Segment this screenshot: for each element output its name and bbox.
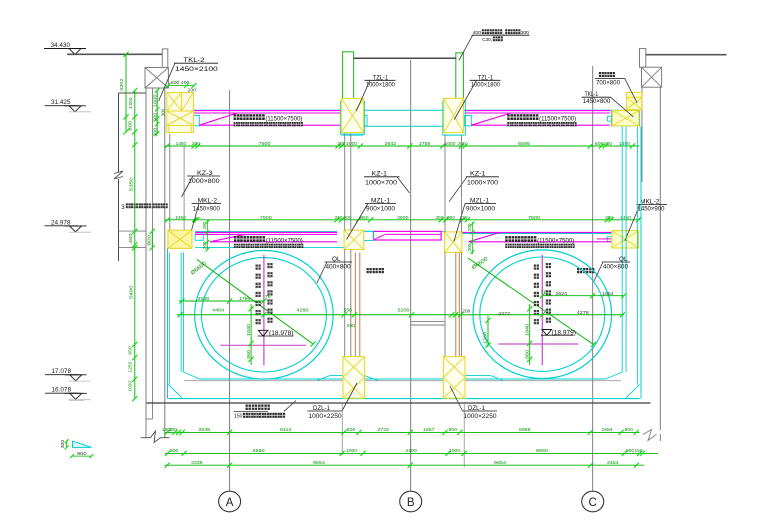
svg-text:B: B: [407, 497, 415, 509]
svg-text:700×800: 700×800: [596, 81, 621, 87]
dimension row bottom 3: [165, 464, 644, 466]
svg-text:4280: 4280: [297, 307, 309, 313]
green chain x134 full height: [134, 91, 136, 399]
svg-text:6966: 6966: [519, 427, 531, 433]
grid bubble A: [219, 491, 241, 512]
extension line x464: [463, 403, 465, 467]
grid line A: [229, 90, 231, 491]
top-right X box column: [642, 67, 662, 87]
green chain x126 3302: [125, 54, 127, 132]
dimension row level1: [165, 145, 640, 147]
svg-text:4278: 4278: [577, 310, 589, 316]
svg-text:8550: 8550: [536, 448, 548, 454]
svg-text:200: 200: [605, 215, 613, 221]
svg-text:1840: 1840: [524, 324, 530, 336]
dim line 2624 1654 right tunnel: [542, 295, 624, 297]
svg-text:5400: 5400: [129, 285, 134, 299]
column TZL-1 left: [340, 101, 364, 134]
left wall pair mid levels: [169, 134, 171, 231]
svg-text:600: 600: [171, 80, 180, 85]
svg-text:200: 200: [467, 223, 472, 231]
cyan floor level2 segments: [195, 230, 337, 232]
svg-text:24.978: 24.978: [51, 219, 71, 226]
dimension row bottom 2: [165, 452, 658, 454]
cyan inner wall right: [621, 127, 623, 373]
svg-text:4400: 4400: [405, 448, 417, 454]
svg-text:1000: 1000: [128, 380, 133, 391]
pit haunch right inner: [606, 372, 623, 379]
cyan notch left of B beam: [364, 231, 374, 240]
cyan notch left beam end: [193, 116, 200, 126]
tunnel centerline right magenta: [541, 255, 543, 365]
svg-text:200: 200: [202, 221, 207, 229]
svg-text:(11500×7500): (11500×7500): [266, 237, 303, 244]
svg-text:550: 550: [344, 307, 353, 313]
cyan floor line level1 top: [194, 109, 620, 111]
svg-text:9654: 9654: [313, 460, 325, 466]
green chain x157 top: [156, 91, 158, 134]
svg-text:650: 650: [361, 215, 369, 221]
svg-text:4372: 4372: [498, 311, 510, 317]
svg-text:200: 200: [458, 141, 466, 147]
svg-text:300: 300: [160, 108, 165, 116]
dim line 2538 1756 left tunnel: [179, 300, 264, 302]
svg-text:650: 650: [128, 346, 133, 355]
svg-text:1000: 1000: [445, 141, 456, 147]
cyan notch t2 right: [465, 116, 472, 126]
svg-text:17.078: 17.078: [52, 368, 72, 375]
hoisting hole label level2: [234, 236, 240, 242]
left outer wall: [118, 93, 120, 172]
svg-text:6695: 6695: [518, 141, 530, 147]
svg-text:300: 300: [60, 439, 65, 448]
label waterproof membrane: [246, 405, 251, 410]
svg-text:200: 200: [462, 308, 470, 314]
column level2 T1 mid: [344, 230, 364, 249]
ground line right: [646, 54, 727, 56]
svg-text:250: 250: [335, 215, 343, 221]
svg-text:860: 860: [524, 350, 530, 359]
svg-text:1450×800: 1450×800: [583, 99, 611, 105]
tunnel rail cross left magenta: [220, 344, 306, 346]
pit pad under DZL left: [330, 375, 365, 377]
cyan inner wall left: [180, 253, 182, 373]
slope legend dim 300: [66, 441, 68, 447]
svg-text:200: 200: [202, 241, 207, 249]
svg-text:5200: 5200: [398, 307, 410, 313]
green column right above roof: [456, 53, 464, 99]
cyan notch level2 right: [607, 237, 612, 242]
svg-text:2642: 2642: [385, 141, 397, 147]
svg-text:1000: 1000: [346, 141, 357, 147]
entrance top cap: [119, 92, 147, 94]
grid bubble B: [400, 491, 422, 512]
svg-text:400: 400: [128, 233, 133, 243]
label cap beam: [599, 72, 604, 77]
svg-text:1000: 1000: [346, 448, 357, 454]
svg-text:7500: 7500: [528, 215, 540, 221]
svg-text:800: 800: [146, 234, 151, 245]
svg-text:2538: 2538: [199, 427, 211, 433]
svg-text:6550: 6550: [253, 448, 265, 454]
svg-text:900×1000: 900×1000: [466, 206, 496, 213]
mid wall below T2: [444, 253, 446, 357]
cyan floor line level1 bottom mid: [364, 125, 444, 127]
reference line 16.078 lower: [69, 399, 84, 401]
svg-text:4484: 4484: [212, 307, 224, 313]
dimension row bottom 1: [165, 431, 640, 433]
svg-text:1000×1800: 1000×1800: [366, 82, 396, 89]
svg-text:200: 200: [192, 141, 200, 147]
column DZL-1 right: [443, 357, 465, 399]
svg-text:900×1000: 900×1000: [366, 206, 396, 213]
svg-text:5350: 5350: [129, 177, 134, 191]
cyan notch level2 left: [195, 234, 203, 240]
svg-text:3302: 3302: [119, 78, 124, 91]
dimension row level2: [165, 219, 640, 221]
vertical text right-line tunnel center: [256, 265, 261, 270]
200 dims beside left beam: [207, 220, 209, 250]
svg-text:400×800: 400×800: [603, 264, 629, 270]
beam TKL-1 right end: [612, 111, 640, 126]
svg-text:34.430: 34.430: [51, 42, 71, 49]
pit outer haunch left: [169, 385, 183, 399]
platform lines mid: [411, 321, 445, 323]
200 dims beside right beam: [472, 222, 474, 254]
label fengyaqiang left: [367, 268, 372, 273]
svg-text:6112: 6112: [280, 427, 292, 433]
magenta beam level2 B span: [373, 231, 441, 240]
svg-text:1250: 1250: [483, 332, 489, 344]
svg-text:200: 200: [338, 141, 346, 147]
hoisting hole label level1 right: [507, 114, 513, 120]
svg-text:1654: 1654: [602, 291, 613, 297]
svg-text:0: 0: [170, 427, 172, 433]
extension line x342: [341, 403, 343, 455]
svg-text:1250: 1250: [128, 361, 133, 372]
svg-text:(11500×7500): (11500×7500): [537, 237, 574, 244]
svg-text:860: 860: [246, 350, 252, 359]
brown duct wall T2: [455, 253, 457, 357]
cap beam 700x800: [627, 92, 642, 109]
diameter leader left tunnel: [197, 260, 313, 345]
svg-text:800: 800: [449, 427, 458, 433]
cyan notch t1 left: [360, 116, 367, 126]
svg-text:2742: 2742: [378, 427, 390, 433]
column TZL-1 right: [443, 101, 466, 135]
svg-text:800: 800: [347, 427, 356, 433]
svg-text:C30,: C30,: [482, 37, 492, 43]
svg-text:1000×2250: 1000×2250: [464, 413, 498, 420]
svg-text:150: 150: [635, 448, 643, 454]
svg-text:3600: 3600: [397, 215, 409, 221]
svg-text:7500: 7500: [259, 141, 271, 147]
grid line B: [410, 60, 412, 491]
svg-text:1840: 1840: [246, 324, 252, 336]
slope legend dim 900: [72, 455, 91, 457]
svg-text:1300: 1300: [128, 97, 133, 109]
ground line left: [67, 53, 162, 55]
diameter leader right tunnel: [468, 258, 594, 345]
svg-text:300: 300: [152, 127, 157, 137]
svg-text:76: 76: [541, 290, 548, 295]
svg-text:16.078: 16.078: [52, 387, 72, 394]
mid wall below T1: [344, 250, 346, 357]
column TKL-2: [167, 93, 194, 133]
right wall line outer: [659, 87, 661, 430]
bottom slab line: [147, 402, 651, 404]
svg-text:1000×2250: 1000×2250: [309, 413, 343, 420]
svg-text:150: 150: [234, 414, 243, 420]
top-left parapet: [162, 49, 168, 68]
magenta roof beam left span: [194, 110, 341, 112]
column level2 left KZ: [168, 230, 192, 248]
svg-text:900: 900: [77, 451, 87, 456]
svg-text:1000×800: 1000×800: [188, 178, 220, 185]
svg-text:(11500×7500): (11500×7500): [265, 115, 302, 122]
svg-text:400×800: 400×800: [326, 264, 352, 270]
svg-text:250: 250: [436, 215, 444, 221]
svg-text:2538: 2538: [198, 296, 210, 302]
svg-text:9654: 9654: [494, 460, 506, 466]
vertical dim 1840 860 left tunnel: [250, 304, 252, 365]
vertical text left-line tunnel center: [534, 265, 539, 270]
svg-text:800: 800: [626, 448, 634, 454]
label fengyaqiang right: [577, 268, 582, 273]
cyan notch right beam end: [608, 116, 613, 121]
svg-text:1654: 1654: [602, 427, 613, 433]
right wall line inner: [641, 87, 643, 182]
svg-text:1450: 1450: [176, 141, 187, 147]
tunnel rail cross right magenta: [498, 343, 578, 345]
svg-text:500: 500: [152, 112, 157, 122]
svg-text:1756: 1756: [239, 296, 250, 302]
cyan outer wall right: [637, 127, 639, 385]
cyan outer wall left: [167, 249, 169, 399]
cyan stubs below T columns: [341, 134, 363, 136]
roof line between columns: [354, 57, 456, 59]
svg-text:1000: 1000: [449, 448, 460, 454]
svg-text:1450×900: 1450×900: [638, 206, 666, 213]
green column left above roof: [343, 52, 354, 99]
grid line C: [592, 66, 594, 491]
grid bubble C: [582, 491, 604, 512]
svg-text:76: 76: [265, 294, 272, 299]
wall below T1 level1-2: [344, 134, 346, 231]
svg-text:2454: 2454: [607, 460, 619, 466]
slope legend triangle: [73, 441, 92, 447]
svg-text:(11500×7500): (11500×7500): [539, 115, 576, 122]
svg-text:800: 800: [625, 427, 634, 433]
magenta beam level2 right span: [462, 231, 611, 233]
svg-text:1450: 1450: [175, 215, 186, 221]
green chain x152 mid 800: [151, 231, 153, 247]
wall footing cap: [141, 437, 151, 439]
hoisting hole label level2 right: [505, 236, 511, 242]
tunnel centerline left magenta: [263, 255, 265, 365]
pit inner floor: [184, 380, 621, 382]
brown duct wall T1: [354, 253, 356, 357]
wall below T2 level1-2: [444, 135, 446, 232]
main horizontal dim line tunnels: [177, 314, 624, 316]
svg-text:605: 605: [595, 141, 604, 147]
svg-text:800: 800: [128, 121, 133, 131]
svg-text:1758: 1758: [419, 141, 431, 147]
right parapet: [640, 49, 646, 68]
left wall lines: [145, 88, 147, 438]
column level2 right MKL: [612, 231, 639, 248]
svg-text:C: C: [589, 497, 597, 509]
leader 400 wall: [459, 35, 473, 60]
svg-text:900: 900: [447, 215, 455, 221]
svg-text:1450: 1450: [619, 141, 630, 147]
magenta roof beam right span: [465, 110, 610, 112]
pit outer haunch right: [626, 385, 640, 399]
vertical dim 1250 right tunnel: [487, 316, 489, 347]
svg-text:800: 800: [170, 448, 179, 454]
pit haunch left inner: [183, 372, 199, 379]
pit pad under DZL right: [448, 376, 462, 381]
svg-text:200: 200: [467, 243, 472, 251]
svg-text:A: A: [226, 497, 234, 509]
magenta beam level2 left span: [195, 231, 337, 233]
tunnel circle right-line (left): [195, 250, 334, 379]
entrance floor stubs: [119, 230, 147, 232]
svg-text:1000×700: 1000×700: [467, 179, 499, 186]
svg-text:3338: 3338: [191, 460, 203, 466]
pit outer floor: [169, 398, 640, 400]
svg-text:31.425: 31.425: [51, 99, 71, 106]
hoisting hole label level1: [234, 114, 240, 120]
svg-text:7500: 7500: [260, 215, 272, 221]
svg-text:2624: 2624: [556, 291, 568, 297]
svg-text:250: 250: [347, 323, 355, 328]
svg-text:1000: 1000: [152, 94, 157, 108]
svg-text:1857: 1857: [423, 427, 435, 433]
svg-text:1450×2100: 1450×2100: [175, 66, 219, 73]
column DZL-1 left: [343, 357, 365, 399]
tunnel circle left-line (right): [473, 250, 612, 379]
svg-text:200: 200: [604, 141, 612, 147]
svg-text:1000×700: 1000×700: [365, 179, 398, 186]
vertical dim 1840 860 right tunnel: [529, 304, 531, 365]
top-left X box column: [145, 68, 168, 89]
column level2 T2 mid: [445, 232, 462, 253]
